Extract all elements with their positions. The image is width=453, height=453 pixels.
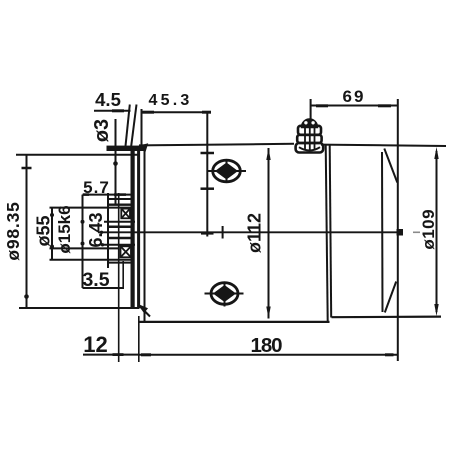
svg-text:69: 69 (343, 87, 366, 106)
svg-text:ø3: ø3 (91, 119, 113, 142)
svg-text:ø55: ø55 (34, 215, 54, 246)
svg-text:45.3: 45.3 (149, 92, 193, 109)
svg-text:5.7: 5.7 (83, 178, 110, 197)
svg-text:ø15k6: ø15k6 (55, 205, 74, 253)
svg-text:3.5: 3.5 (82, 269, 109, 291)
svg-text:4.5: 4.5 (95, 89, 121, 110)
svg-text:ø98.35: ø98.35 (3, 201, 23, 260)
svg-text:ø112: ø112 (245, 213, 265, 253)
svg-text:6.43: 6.43 (86, 212, 106, 247)
svg-text:12: 12 (83, 332, 107, 357)
svg-text:180: 180 (251, 334, 283, 357)
svg-text:ø109: ø109 (419, 209, 438, 250)
